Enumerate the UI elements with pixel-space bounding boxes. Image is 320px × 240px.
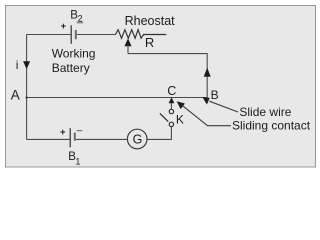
svg-text:1: 1 xyxy=(75,156,80,166)
galvanometer G xyxy=(127,129,147,149)
svg-text:B: B xyxy=(211,88,219,102)
svg-text:R: R xyxy=(145,35,154,50)
wire: slide wire A to B xyxy=(27,97,208,99)
resistor R (rheostat zigzag) xyxy=(115,30,166,39)
panel frame xyxy=(6,6,316,168)
key K upper contact xyxy=(169,109,173,113)
node B arrow (current into slide wire) xyxy=(202,97,209,104)
label B1 xyxy=(68,151,80,166)
wire: key down to bottom run xyxy=(147,127,171,140)
label Working Battery xyxy=(52,47,96,75)
sliding contact (jockey) arrow xyxy=(169,97,175,109)
svg-text:C: C xyxy=(167,84,176,98)
svg-text:Battery: Battery xyxy=(52,61,90,75)
wire: bottom run battery to left vertical xyxy=(27,138,70,140)
leader line: Slide wire xyxy=(209,101,238,112)
svg-text:+: + xyxy=(61,21,67,32)
wire: wiper run to B xyxy=(128,54,207,98)
node A junction xyxy=(26,96,28,98)
svg-text:+: + xyxy=(60,127,66,138)
svg-text:i: i xyxy=(16,58,19,72)
current arrow i (left wire) xyxy=(23,61,30,69)
svg-text:A: A xyxy=(11,87,20,102)
current arrow up (on B branch) xyxy=(204,68,211,77)
wire: bottom run G to battery B1 xyxy=(76,138,127,140)
svg-text:Rheostat: Rheostat xyxy=(125,14,176,28)
label B2 xyxy=(70,10,83,24)
svg-text:G: G xyxy=(133,133,143,147)
wire: top horizontal left (battery to rheostat run) xyxy=(27,34,116,36)
key K lower contact xyxy=(169,122,173,126)
svg-text:Slide wire: Slide wire xyxy=(239,105,291,119)
key K blade xyxy=(160,113,168,121)
svg-text:–: – xyxy=(77,126,83,137)
battery B1 xyxy=(70,128,75,147)
svg-text:Working: Working xyxy=(52,47,96,61)
rheostat wiper arrow xyxy=(124,38,131,53)
battery B2 xyxy=(71,25,76,44)
svg-text:Sliding contact: Sliding contact xyxy=(232,118,311,132)
svg-text:K: K xyxy=(176,112,184,126)
wire: left vertical (A branch) xyxy=(26,34,28,139)
leader arrow: Sliding contact xyxy=(177,101,231,126)
